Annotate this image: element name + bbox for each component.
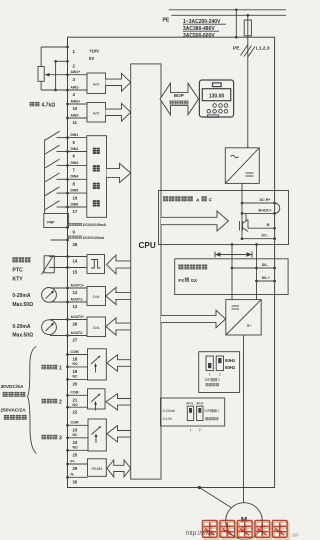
svg-text:.cn: .cn: [291, 533, 298, 539]
svg-text:29: 29: [73, 466, 78, 471]
wire arrow CPU to D/A1: [106, 287, 131, 304]
op-amp A/D converter U1: [87, 73, 106, 94]
svg-text:DIN3: DIN3: [71, 161, 79, 165]
svg-text:N-: N-: [71, 473, 75, 477]
svg-text:NO: NO: [73, 445, 78, 449]
terminal 4 wire and pin: [66, 85, 87, 97]
node B+/DC+ terminal: [242, 208, 276, 214]
wire arrow CPU to inverter: [161, 310, 226, 328]
meter M2 analog output 2: [42, 320, 68, 336]
svg-text:PE: PE: [163, 18, 170, 24]
switch S5 DIN5: [45, 187, 68, 196]
svg-text:AIN1: AIN1: [186, 401, 193, 405]
relay K1 contact block: [88, 349, 107, 380]
fuse F1: [244, 14, 251, 148]
terminal 16 wire and pin: [66, 189, 87, 201]
component opto-isolation block U3: [87, 136, 107, 218]
svg-text:NO: NO: [73, 403, 78, 407]
wire PE top line: [171, 14, 286, 16]
svg-text:CPU: CPU: [139, 241, 156, 250]
wire arrow RS485 double-headed: [107, 460, 131, 477]
svg-text:D/A: D/A: [93, 294, 100, 299]
svg-text:NC: NC: [73, 433, 78, 437]
terminal 7 wire and pin: [66, 161, 87, 173]
component DIP switch box analog input: [161, 398, 225, 432]
terminal 10 wire and pin: [66, 99, 87, 111]
svg-text:16: 16: [73, 195, 78, 200]
svg-text:AIN1-: AIN1-: [71, 85, 80, 89]
value label isolated output 24V: [68, 223, 71, 226]
svg-text:COM: COM: [71, 421, 79, 425]
svg-text:22: 22: [73, 409, 78, 414]
svg-text:4.7kΩ: 4.7kΩ: [42, 103, 56, 109]
svg-text:DIP: DIP: [205, 378, 211, 382]
svg-text:28: 28: [73, 242, 78, 247]
value label 30VDC/5A resistive: [1, 384, 26, 397]
wire DC link down-left to inverter: [231, 243, 234, 299]
svg-text:PE: PE: [233, 46, 240, 52]
svg-text:COM: COM: [71, 350, 79, 354]
svg-text:AOUT1-: AOUT1-: [71, 297, 84, 301]
node D/L- terminal: [231, 263, 276, 269]
component PNP mode block: [44, 214, 69, 228]
wire arrow A/D2 to CPU: [106, 103, 131, 121]
svg-text:1: 1: [209, 372, 211, 376]
wire dimension double arrow DC link: [215, 252, 252, 258]
svg-text:24: 24: [73, 440, 78, 445]
wire arrow CPU to relay K2: [106, 394, 131, 410]
svg-text:DC R+: DC R+: [260, 198, 271, 202]
node PE junction on enclosure bottom: [198, 486, 201, 489]
svg-text:A: A: [196, 198, 200, 204]
terminal 12 wire and pin: [66, 283, 87, 295]
resistor braking loop arc: [275, 203, 280, 213]
svg-text:BOP: BOP: [174, 93, 184, 98]
svg-text:10: 10: [73, 106, 78, 111]
switch S6 DIN6: [45, 201, 68, 210]
terminal 6 wire and pin: [66, 147, 87, 159]
svg-text:F: F: [209, 198, 212, 204]
svg-text:2: 2: [199, 428, 201, 432]
svg-text:7: 7: [73, 168, 76, 173]
terminal 8 wire and pin: [66, 175, 87, 187]
svg-text:DIN5: DIN5: [71, 189, 79, 193]
transistor Q1 brake chopper: [240, 213, 249, 231]
brace relay group: [28, 347, 37, 454]
value label relay2: [42, 399, 47, 404]
svg-text:AIN2: AIN2: [196, 401, 203, 405]
svg-text:COM: COM: [71, 391, 79, 395]
svg-text:8: 8: [73, 182, 76, 187]
node DC R+ terminal: [242, 198, 276, 205]
svg-text:Max.50Ω: Max.50Ω: [12, 333, 33, 339]
svg-text:2: 2: [73, 64, 76, 69]
svg-text:15: 15: [73, 270, 78, 275]
svg-text:19: 19: [73, 369, 78, 374]
switch S2 DIN2: [45, 145, 68, 154]
svg-text:2: 2: [59, 400, 62, 406]
switch S4 DIN4: [45, 173, 68, 182]
wire arrow A/D1 to CPU: [106, 73, 131, 91]
component RS485 interface block U7: [88, 459, 107, 477]
value label min 4.7k: [30, 102, 35, 106]
svg-text:AOUT2-: AOUT2-: [71, 331, 84, 335]
value label 250VAC/2A inductive: [1, 407, 27, 420]
svg-text:P+: P+: [71, 459, 75, 463]
svg-text:60Hz: 60Hz: [225, 358, 236, 363]
resistor R1 potentiometer 4.7k: [38, 47, 68, 90]
svg-text:12: 12: [73, 290, 78, 295]
svg-text:D/A: D/A: [93, 325, 100, 330]
op-amp A/D converter U2: [87, 103, 106, 123]
svg-text:AIN2-: AIN2-: [71, 113, 80, 117]
svg-text:DIP: DIP: [205, 409, 210, 413]
svg-text:B+/DC+: B+/DC+: [259, 208, 272, 212]
svg-text:3AC500-600V: 3AC500-600V: [183, 33, 215, 39]
wire motor feed: [243, 335, 245, 503]
svg-text:DC0V/100mA: DC0V/100mA: [83, 236, 105, 240]
wire PE to motor: [199, 488, 231, 508]
meter M1 analog output 1: [42, 288, 68, 303]
svg-text:DIN4: DIN4: [71, 175, 79, 179]
op-amp D/A converter U6: [87, 317, 106, 337]
motor M 3-phase: [226, 503, 263, 540]
terminal 3 wire and pin: [66, 70, 87, 82]
svg-text:AOUT2+: AOUT2+: [71, 315, 84, 319]
svg-text:4: 4: [73, 92, 76, 97]
svg-text:AIN1+: AIN1+: [71, 70, 81, 74]
terminal 27 wire and pin: [66, 331, 87, 343]
svg-text:20: 20: [73, 382, 78, 387]
svg-text:5: 5: [73, 140, 76, 145]
svg-text:0-20mA: 0-20mA: [163, 409, 176, 413]
svg-text:1: 1: [190, 428, 192, 432]
svg-text:14: 14: [73, 259, 78, 264]
inverter enclosure main box: [68, 37, 275, 487]
relay K3 contact block: [88, 419, 106, 451]
wire wiper arrow to terminal 3: [45, 73, 68, 77]
transformer inverter block (DC/3AC): [226, 300, 261, 335]
component BOP operator panel: [199, 80, 233, 117]
terminal 19 wire and pin: [66, 366, 87, 379]
svg-text:DC-: DC-: [262, 234, 269, 238]
svg-text:1: 1: [59, 366, 62, 372]
svg-text:NO: NO: [73, 362, 78, 366]
svg-text:KTY: KTY: [12, 277, 23, 283]
svg-text:DIN1: DIN1: [71, 133, 79, 137]
svg-text:11: 11: [73, 120, 78, 125]
value label isolated output 0V: [68, 236, 71, 239]
wire DIN common bus: [44, 140, 46, 214]
node B- terminal: [248, 223, 276, 230]
terminal 17 wire and pin: [66, 202, 87, 214]
wire arrow CPU to chopper gate: [161, 211, 229, 231]
wire arrow opto block to CPU: [107, 163, 131, 182]
svg-text:A/D: A/D: [93, 81, 100, 86]
switch S1 DIN1: [45, 131, 68, 140]
wire L-mains top line: [169, 9, 286, 11]
wire terminal 28 stub: [50, 239, 67, 241]
value label relay1: [42, 365, 47, 370]
wire arrow BOP serial link double-headed: [160, 83, 199, 115]
terminal 1 wire and pin: [66, 46, 75, 55]
op-amp D/A converter U5: [87, 287, 106, 306]
svg-text:L1.2.3: L1.2.3: [256, 46, 270, 52]
transformer rectifier block (AC/DC): [225, 148, 259, 184]
svg-text:9: 9: [73, 230, 76, 235]
terminal 28 wire and pin: [66, 239, 78, 248]
svg-text:AIN2+: AIN2+: [71, 99, 81, 103]
wire arrow CPU to PTC block: [107, 255, 131, 274]
svg-text:6: 6: [73, 154, 76, 159]
terminal 5 wire and pin: [66, 133, 87, 145]
svg-text:27: 27: [73, 338, 78, 343]
node D/L+ terminal: [255, 276, 276, 282]
wire arrow CPU to D/A2: [106, 318, 131, 335]
svg-text:50Hz: 50Hz: [225, 365, 236, 370]
terminal 2 wire and pin: [66, 60, 75, 69]
terminal 25 wire and pin: [66, 449, 87, 458]
svg-text:GX: GX: [191, 278, 197, 283]
svg-text:1: 1: [218, 409, 220, 413]
wire PE drop to enclosure: [235, 8, 238, 38]
op-amp CPU block U8: [131, 64, 161, 479]
terminal 9 wire and pin: [66, 226, 75, 235]
wire arrow CPU to relay K1: [107, 355, 131, 371]
frame size FX/GX box: [175, 259, 288, 295]
terminal 22 wire and pin: [66, 406, 87, 415]
svg-text:D/L+: D/L+: [262, 276, 270, 280]
svg-text:17: 17: [73, 209, 78, 214]
terminal 30 wire and pin: [66, 473, 87, 485]
svg-text:3~: 3~: [247, 323, 253, 328]
value label frame size A to F: [163, 196, 168, 201]
svg-text:2: 2: [218, 378, 220, 382]
terminal 26 wire and pin: [66, 315, 87, 327]
svg-text:25: 25: [73, 453, 78, 458]
svg-text:AOUT1+: AOUT1+: [71, 283, 84, 287]
terminal 21 wire and pin: [66, 391, 87, 407]
decorative watermark (not labelled as circuit): [186, 521, 298, 540]
svg-text:0-20mA: 0-20mA: [12, 293, 30, 299]
svg-text:DC24V/100mA: DC24V/100mA: [83, 223, 107, 227]
terminal 11 wire and pin: [66, 113, 87, 125]
svg-text:B-: B-: [267, 223, 272, 227]
wire DC link down-right to inverter: [255, 243, 258, 299]
terminal 23 wire and pin: [66, 421, 87, 437]
component PTC trigger block U4 with hysteresis symbol: [87, 255, 105, 274]
svg-text:FX: FX: [178, 278, 184, 283]
svg-text:Max.50Ω: Max.50Ω: [12, 302, 33, 308]
switch S3 DIN3: [45, 159, 68, 168]
terminal 14 wire and pin: [66, 255, 87, 264]
svg-text:DIN6: DIN6: [71, 202, 79, 206]
svg-text:+10V: +10V: [89, 48, 99, 53]
svg-text:RS485: RS485: [91, 467, 102, 471]
svg-text:PTC: PTC: [12, 268, 23, 274]
svg-text:D/L-: D/L-: [262, 263, 270, 267]
svg-text:A/D: A/D: [93, 110, 100, 115]
value label supply voltages: [183, 19, 226, 39]
relay K2 contact block: [88, 389, 106, 411]
svg-text:13: 13: [73, 304, 78, 309]
svg-text:21: 21: [73, 398, 78, 403]
value label frame size FX GX: [178, 265, 207, 283]
svg-text:30VDC/5A: 30VDC/5A: [1, 384, 24, 390]
svg-text:3: 3: [59, 436, 62, 442]
svg-text:3: 3: [73, 77, 76, 82]
value label relay3: [42, 435, 47, 440]
svg-text:30: 30: [73, 480, 78, 485]
svg-text:0V: 0V: [89, 56, 94, 61]
wire DC bus vertical from rectifier: [241, 183, 244, 240]
svg-text:0-10V: 0-10V: [163, 417, 173, 421]
svg-text:DIN2: DIN2: [71, 147, 79, 151]
svg-text:18: 18: [73, 357, 78, 362]
terminal 29 wire and pin: [66, 459, 87, 471]
terminal 15 wire and pin: [66, 266, 87, 275]
terminal 18 wire and pin: [66, 350, 87, 366]
terminal 20 wire and pin: [66, 378, 87, 387]
svg-text:250VAC/2A: 250VAC/2A: [1, 407, 27, 413]
terminal 24 wire and pin: [66, 436, 87, 449]
value label motor PTC KTY: [12, 257, 30, 282]
wire 3-phase slash marks L1.2.3: [241, 45, 256, 58]
svg-text:1: 1: [73, 49, 76, 54]
svg-text:2: 2: [219, 372, 221, 376]
svg-text:23: 23: [73, 428, 78, 433]
svg-text:130.00: 130.00: [209, 93, 225, 99]
svg-text:26: 26: [73, 322, 78, 327]
value label 0-20mA Max.50 ohm (2): [12, 324, 33, 339]
svg-text:0-20mA: 0-20mA: [12, 324, 30, 330]
value label 0-20mA Max.50 ohm (1): [12, 293, 33, 308]
wire arrow CPU to relay K3: [107, 426, 131, 442]
terminal 13 wire and pin: [66, 297, 87, 309]
component DIP switch box motor frequency: [199, 352, 240, 393]
svg-text:PNP: PNP: [47, 220, 55, 224]
node DC- terminal: [242, 234, 276, 241]
wire 0V link terminal 2 to 4: [54, 60, 67, 91]
frame size A-F box: [159, 191, 289, 245]
svg-text:NC: NC: [73, 375, 78, 379]
component PTC sensor (motor thermistor): [42, 256, 68, 275]
